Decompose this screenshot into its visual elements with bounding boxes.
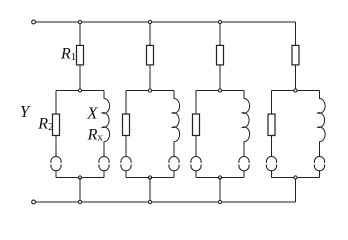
svg-text:Y: Y: [20, 102, 31, 121]
svg-text:R: R: [60, 45, 71, 62]
wire: left-leg meter to loop bottom (branch 2): [125, 170, 127, 177]
svg-text:x: x: [97, 132, 103, 144]
series resistor (branch 4): [292, 45, 299, 65]
wire: bottom bus: [36, 201, 296, 203]
wire: left-leg resistor to meter (branch 4): [271, 136, 273, 157]
node: loop top junction (branch 4): [294, 89, 297, 92]
wire: top-right corner drop to branch 4 resistor: [295, 22, 297, 46]
svg-text:1: 1: [71, 51, 77, 63]
meter circle on left leg (branch 2): [121, 157, 131, 171]
meter circle on right leg (branch 3): [239, 157, 249, 171]
node: loop bottom junction (branch 4): [294, 176, 297, 179]
wire: left-leg meter to loop bottom (branch 1): [55, 170, 57, 177]
wire: right-leg meter to loop bottom (branch 3): [243, 170, 245, 177]
node: loop top junction (branch 1): [78, 89, 81, 92]
svg-text:2: 2: [48, 121, 54, 133]
node: top bus junction (branch 1): [78, 20, 81, 23]
wire: left-leg meter to loop bottom (branch 3): [195, 170, 197, 177]
resistor on loop left leg (branch 2): [123, 114, 130, 136]
node: bottom bus junction (branch 1): [78, 200, 81, 203]
terminal: top-left input: [32, 20, 36, 24]
meter circle on right leg (branch 2): [169, 157, 179, 171]
wire: right-leg meter to loop bottom (branch 4): [319, 170, 321, 177]
wire: left-leg resistor to meter (branch 2): [125, 136, 127, 157]
wire: loop bottom rail (branch 3): [196, 177, 244, 179]
wire: loop bottom to bottom bus (branch 3): [219, 178, 221, 203]
branch 2: wire from top bus down to series resistor: [149, 22, 151, 46]
svg-text:X: X: [86, 104, 98, 123]
node: loop top junction (branch 3): [218, 89, 221, 92]
node: bottom bus junction (branch 3): [218, 200, 221, 203]
node: bottom bus junction (branch 2): [148, 200, 151, 203]
svg-text:R: R: [87, 126, 98, 143]
wire: loop left leg upper (branch 1): [55, 91, 57, 116]
wire: loop bottom rail (branch 4): [272, 177, 320, 179]
node: loop top junction (branch 2): [148, 89, 151, 92]
wire: loop bottom rail (branch 2): [126, 177, 174, 179]
wire: loop bottom rail (branch 1): [56, 177, 104, 179]
wire: loop top rail (branch 3): [196, 90, 244, 92]
node: top bus junction (branch 2): [148, 20, 151, 23]
wire: loop top rail (branch 4): [272, 90, 320, 92]
wire: series resistor to loop top (branch 3): [219, 65, 221, 91]
wire: right-leg meter to loop bottom (branch 2): [173, 170, 175, 177]
wire: loop left leg upper (branch 3): [195, 91, 197, 116]
wire: bottom-right corner rise to branch 4 loop: [295, 178, 297, 203]
inductor coil on loop right leg (branch 4): [318, 91, 325, 157]
resistor on loop left leg (branch 3): [193, 114, 200, 136]
node: loop bottom junction (branch 1): [78, 176, 81, 179]
series resistor (branch 2): [147, 45, 154, 65]
meter circle on left leg (branch 4): [266, 157, 276, 171]
wire: left-leg meter to loop bottom (branch 4): [271, 170, 273, 177]
node: top bus junction (branch 3): [218, 20, 221, 23]
wire: loop top rail (branch 2): [126, 90, 174, 92]
branch 3: wire from top bus down to series resistor: [219, 22, 221, 46]
inductor coil on loop right leg (branch 3): [242, 91, 249, 157]
wire: right-leg meter to loop bottom (branch 1): [103, 170, 105, 177]
wire: left-leg resistor to meter (branch 3): [195, 136, 197, 157]
wire: loop left leg upper (branch 4): [271, 91, 273, 116]
resistor on loop left leg (branch 4): [268, 114, 275, 136]
svg-text:R: R: [37, 115, 48, 132]
resistor on loop left leg (branch 1): [53, 114, 60, 136]
wire: loop bottom to bottom bus (branch 2): [149, 178, 151, 203]
wire: series resistor to loop top (branch 4): [295, 65, 297, 91]
wire: top bus: [36, 21, 296, 23]
series resistor (branch 1): [77, 45, 84, 65]
node: loop bottom junction (branch 2): [148, 176, 151, 179]
wire: series resistor to loop top (branch 1): [79, 65, 81, 91]
node: loop bottom junction (branch 3): [218, 176, 221, 179]
inductor coil on loop right leg (branch 1): [102, 91, 109, 157]
meter circle on right leg (branch 4): [314, 157, 324, 171]
branch 4: wire from top bus down to series resistor: [295, 22, 297, 46]
series resistor (branch 3): [217, 45, 224, 65]
terminal: bottom-left input: [32, 200, 36, 204]
meter circle on left leg (branch 1): [51, 157, 61, 171]
inductor coil on loop right leg (branch 2): [172, 91, 179, 157]
meter circle on left leg (branch 3): [191, 157, 201, 171]
wire: loop left leg upper (branch 2): [125, 91, 127, 116]
branch 1: wire from top bus down to series resistor: [79, 22, 81, 46]
wire: loop bottom to bottom bus (branch 1): [79, 178, 81, 203]
wire: series resistor to loop top (branch 2): [149, 65, 151, 91]
meter circle on right leg (branch 1): [99, 157, 109, 171]
wire: loop top rail (branch 1): [56, 90, 104, 92]
wire: left-leg resistor to meter (branch 1): [55, 136, 57, 157]
